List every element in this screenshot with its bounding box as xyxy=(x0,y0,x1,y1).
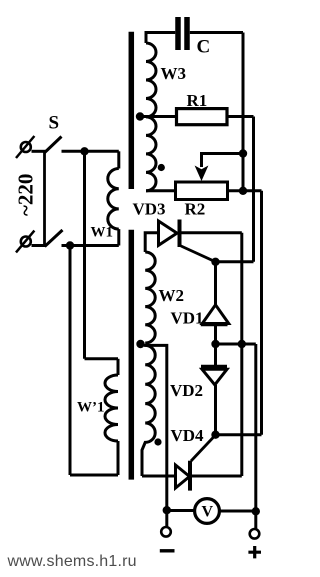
node gate junction xyxy=(211,258,219,266)
terminal plus stub xyxy=(254,511,257,529)
wire xyxy=(117,151,120,168)
svg-text:W3: W3 xyxy=(161,64,187,83)
wire xyxy=(214,385,217,435)
wire xyxy=(216,433,262,436)
wire xyxy=(228,189,262,192)
input terminal X2 slash xyxy=(16,231,34,253)
thyristor VD4 triangle xyxy=(176,465,190,488)
capacitor C plate left xyxy=(175,17,181,50)
wire xyxy=(62,244,119,247)
wire xyxy=(117,441,120,475)
wire xyxy=(182,231,242,234)
wire xyxy=(216,343,256,346)
winding W'1 xyxy=(105,375,118,441)
svg-text:VD3: VD3 xyxy=(133,200,166,219)
switch S blade bottom pole xyxy=(45,230,63,247)
wire xyxy=(117,359,120,375)
transformer core upper xyxy=(129,32,135,189)
wire xyxy=(32,244,46,247)
svg-text:VD4: VD4 xyxy=(171,426,205,445)
input terminal X1 slash xyxy=(16,136,34,158)
node junction xyxy=(66,241,74,249)
diode VD2 triangle xyxy=(202,369,227,385)
wire xyxy=(190,31,243,34)
diode VD1 triangle xyxy=(202,305,228,324)
svg-text:C: C xyxy=(197,37,211,58)
svg-text:VD1: VD1 xyxy=(171,309,204,328)
thyristor VD3 triangle xyxy=(159,221,178,245)
wire W2 top to VD3 anode xyxy=(145,233,158,252)
input terminal X2 bottom circle xyxy=(21,237,31,247)
wire step xyxy=(85,357,119,360)
wire xyxy=(227,115,254,118)
wire xyxy=(167,509,194,512)
node W3 tap xyxy=(136,112,144,120)
wire line A xyxy=(242,33,245,192)
wire xyxy=(117,229,120,245)
polarity dot W3 xyxy=(158,164,165,171)
svg-text:W’1: W’1 xyxy=(77,400,105,416)
switch S blade top pole xyxy=(45,137,62,153)
wire xyxy=(32,150,46,153)
node xyxy=(211,340,219,348)
thyristor VD3 cathode bar xyxy=(178,220,182,248)
terminal minus circle xyxy=(161,527,171,537)
wire VD4 anode xyxy=(142,475,176,478)
node W2 tap xyxy=(136,340,144,348)
capacitor C plate right xyxy=(184,17,190,50)
node junction xyxy=(80,147,88,155)
svg-text:W2: W2 xyxy=(159,286,185,305)
voltmeter V circle xyxy=(195,499,220,524)
svg-text:S: S xyxy=(49,113,60,134)
winding W3 xyxy=(146,43,156,191)
W2 tap wire xyxy=(144,345,167,510)
node xyxy=(239,149,247,157)
svg-text:R1: R1 xyxy=(187,91,208,110)
wire line D xyxy=(254,344,257,511)
wire bottom closing xyxy=(70,474,118,477)
rheostat R2 xyxy=(176,182,228,200)
diode VD1 base bar xyxy=(201,322,228,326)
thyristor VD4 cathode bar xyxy=(188,461,192,491)
svg-text:~220: ~220 xyxy=(14,174,38,216)
wire xyxy=(192,475,242,478)
wire VD3 cathode drop xyxy=(240,233,243,476)
terminal plus circle xyxy=(250,529,260,539)
switch S mechanical link xyxy=(43,151,46,246)
node xyxy=(211,431,219,439)
transformer core lower xyxy=(129,230,135,480)
svg-text:VD2: VD2 xyxy=(170,381,203,400)
VD3 gate xyxy=(181,246,216,262)
node xyxy=(238,340,246,348)
wire W3 top to capacitor xyxy=(146,33,175,44)
wire xyxy=(214,325,217,344)
label minus xyxy=(160,549,175,552)
wire xyxy=(216,260,254,263)
svg-text:W1: W1 xyxy=(91,225,114,241)
node xyxy=(239,187,247,195)
wire xyxy=(142,115,177,118)
svg-text:V: V xyxy=(202,504,214,521)
label plus xyxy=(248,546,261,558)
R2 wiper arrowhead xyxy=(195,166,209,182)
wire line C xyxy=(260,191,263,435)
wire line B xyxy=(252,117,255,262)
wire left drop xyxy=(69,246,72,476)
node xyxy=(252,507,260,515)
terminal minus stub xyxy=(165,510,168,527)
wire xyxy=(62,150,119,153)
polarity dot W2 xyxy=(154,438,161,445)
resistor R1 xyxy=(177,109,228,125)
R2 wiper wire xyxy=(202,154,244,168)
svg-text:R2: R2 xyxy=(185,200,206,219)
input terminal X1 top circle xyxy=(21,142,31,152)
winding W1 xyxy=(108,169,119,230)
wire xyxy=(214,262,217,306)
node xyxy=(163,506,171,514)
wire mid drop xyxy=(83,151,86,358)
diode VD2 bar xyxy=(201,365,227,369)
VD4 gate xyxy=(191,435,216,461)
wire W3 bottom to R2 xyxy=(146,189,176,192)
winding W2 upper xyxy=(145,252,155,343)
svg-text:www.shems.h1.ru: www.shems.h1.ru xyxy=(7,553,137,570)
wire xyxy=(221,510,256,513)
wire xyxy=(214,344,217,365)
winding W2 lower xyxy=(142,345,155,476)
